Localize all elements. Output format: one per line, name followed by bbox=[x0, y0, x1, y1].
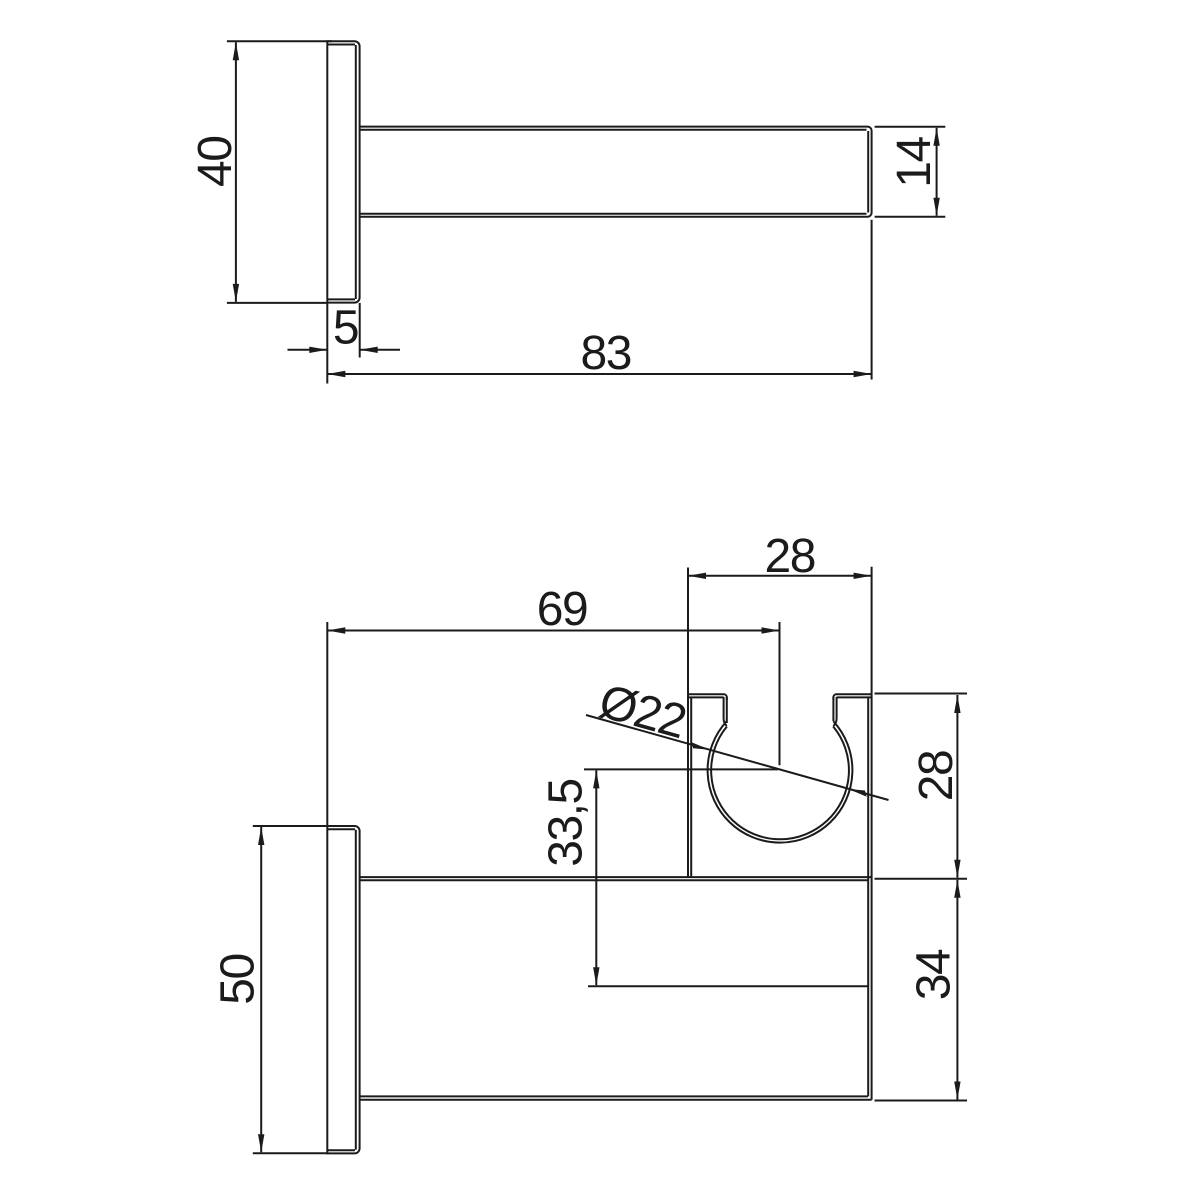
top view: arm inner top edge bbox=[360, 129, 867, 131]
holder: right notch top inner bbox=[837, 696, 872, 698]
holder: right notch top outer bbox=[833, 694, 871, 700]
bottom view: arm bottom edge outer bbox=[360, 1099, 872, 1101]
bottom view: wall plate inner bottom edge bbox=[327, 1149, 355, 1151]
arrowhead 14 bottom bbox=[933, 198, 939, 216]
arrowhead 33,5 bottom bbox=[593, 967, 599, 985]
dimension 14: dimension line bbox=[936, 128, 938, 216]
svg-text:14: 14 bbox=[888, 137, 941, 188]
arrowhead 14 top bbox=[933, 128, 939, 146]
dimension 5: extension lines bbox=[326, 303, 328, 384]
arrowhead 33,5 top bbox=[593, 770, 599, 788]
holder: left notch top inner bbox=[688, 696, 724, 698]
clip: left lip inner line bbox=[726, 697, 728, 723]
dimension 28 right / 34: shared extension line bbox=[875, 878, 968, 880]
svg-text:5: 5 bbox=[333, 302, 358, 355]
dimension 50: extension lines bbox=[253, 825, 327, 827]
dimension 28 top: extension lines bbox=[687, 568, 689, 695]
top view: wall plate outer contour bbox=[327, 41, 359, 302]
dimension 83: dimension line bbox=[327, 373, 871, 375]
clip: left lip outer line bbox=[723, 697, 725, 719]
bottom view: arm bottom edge inner bbox=[360, 1095, 868, 1097]
bottom view: arm top edge outer bbox=[360, 876, 872, 878]
dimension 69: left extension line bbox=[326, 622, 328, 826]
dimension 34: dimension line bbox=[956, 880, 958, 1100]
bottom view: wall plate inner top edge bbox=[327, 828, 355, 830]
dimension 40: dimension line bbox=[235, 42, 237, 302]
svg-text:69: 69 bbox=[537, 583, 587, 636]
arrowhead 40 top bbox=[233, 42, 239, 60]
dimension 28 right: top extension line bbox=[875, 693, 968, 695]
dimension 28 top: dimension line bbox=[688, 575, 872, 577]
centre line horizontal to circle centre bbox=[584, 768, 778, 770]
arrowhead 28 top right bbox=[854, 573, 872, 579]
bottom view: wall plate inner face line bbox=[355, 830, 357, 1150]
top view: wall plate inner bottom edge bbox=[327, 298, 355, 300]
arrowhead 5 right bbox=[360, 347, 378, 353]
arrowhead 28 top left bbox=[688, 573, 706, 579]
arrowhead diameter 22 upper bbox=[691, 742, 709, 750]
top view: arm outer contour bbox=[360, 127, 872, 217]
bottom view: arm / holder right wall outer bbox=[871, 694, 873, 1099]
clip: right lip inner line bbox=[832, 697, 834, 721]
clip: outer arc bbox=[708, 721, 853, 842]
holder: left notch top outer bbox=[688, 694, 727, 700]
svg-text:83: 83 bbox=[581, 327, 631, 380]
clip: lip fillet right bbox=[833, 719, 836, 726]
svg-text:Ø22: Ø22 bbox=[594, 675, 691, 749]
svg-text:40: 40 bbox=[189, 137, 242, 187]
arrowhead 34 top bbox=[954, 880, 960, 898]
arrowhead diameter 22 lower bbox=[849, 789, 867, 797]
dimension diameter 22: leader line bbox=[586, 715, 889, 800]
arrowhead 50 bottom bbox=[258, 1134, 264, 1152]
bottom view: arm / holder right wall inner bbox=[867, 697, 869, 1096]
svg-text:33,5: 33,5 bbox=[540, 779, 593, 866]
dimension 69: dimension line bbox=[327, 630, 779, 632]
arrowhead 34 bottom bbox=[954, 1082, 960, 1100]
dimension 83: right extension line bbox=[871, 220, 873, 380]
arrowhead 50 top bbox=[258, 827, 264, 845]
arrowhead 5 left bbox=[309, 347, 327, 353]
top view: arm inner bottom edge bbox=[360, 213, 867, 215]
clip: lip fillet left bbox=[724, 719, 727, 726]
arrowhead 83 left bbox=[327, 371, 345, 377]
bottom view: wall plate outer contour bbox=[327, 826, 359, 1153]
dimension 5: dimension line tails bbox=[288, 349, 328, 351]
arrowhead 69 right bbox=[762, 627, 780, 633]
svg-text:28: 28 bbox=[910, 751, 963, 801]
holder: left wall outer bbox=[687, 694, 689, 877]
dimension 40: extension lines bbox=[227, 40, 332, 42]
arrowhead 28 right top bbox=[954, 695, 960, 713]
arrowhead 28 right bottom bbox=[954, 860, 960, 878]
dimension 34: bottom extension line bbox=[875, 1100, 968, 1102]
edge line inside arm (33,5 reference) bbox=[588, 985, 868, 987]
dimension 28 right: dimension line bbox=[956, 695, 958, 878]
dimension 50: dimension line bbox=[260, 827, 262, 1152]
arrowhead 83 right bbox=[854, 371, 872, 377]
dimension 33,5: dimension line bbox=[595, 770, 597, 985]
svg-text:28: 28 bbox=[765, 530, 815, 583]
svg-text:34: 34 bbox=[908, 949, 961, 1000]
bottom view: arm top edge inner bbox=[360, 879, 868, 881]
top view: wall plate inner top edge bbox=[327, 44, 355, 46]
top view: wall plate inner face line bbox=[355, 45, 357, 299]
arrowhead 69 left bbox=[327, 627, 345, 633]
clip: right lip outer line bbox=[836, 697, 838, 719]
holder: left wall inner bbox=[690, 697, 692, 877]
dimension 14: extension lines bbox=[875, 126, 946, 128]
clip: inner arc bbox=[711, 726, 849, 839]
top view: arm inner end edge bbox=[867, 131, 869, 213]
arrowhead 40 bottom bbox=[233, 284, 239, 302]
centre line vertical to circle centre bbox=[779, 622, 781, 765]
svg-text:50: 50 bbox=[211, 954, 264, 1004]
